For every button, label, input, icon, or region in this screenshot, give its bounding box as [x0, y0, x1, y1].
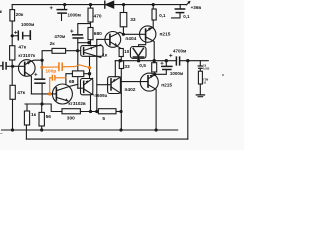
svg-text:кт3102в: кт3102в [68, 101, 85, 106]
wire rail2 [26, 138, 187, 140]
svg-text:4700м: 4700м [173, 49, 187, 54]
capacitor C1 input [0, 62, 13, 69]
wire divider bar [25, 104, 62, 112]
capacitor C7 1000m output [155, 61, 172, 75]
resistor R6 680 [88, 28, 93, 46]
resistor R5 470 [88, 5, 93, 28]
resistor R10 300 [62, 109, 80, 114]
svg-text:0,1: 0,1 [159, 13, 166, 18]
resistor R17 33 lower [119, 61, 123, 69]
ground [196, 95, 204, 97]
wire output to rail2 [187, 61, 189, 139]
wire p404 base down [96, 39, 98, 111]
node dot rail-1000m [63, 3, 66, 6]
resistor R1 20k [10, 10, 15, 21]
svg-text:33: 33 [130, 17, 136, 23]
wire [12, 99, 14, 130]
wire emitter VT1 [32, 59, 42, 62]
node dot box1-bottom [89, 110, 92, 113]
capacitor C5 electrolytic mid [35, 60, 45, 104]
svg-text:кт3107к: кт3107к [18, 53, 35, 58]
wire [11, 21, 13, 46]
resistor R11 5 [98, 109, 116, 114]
wire output line [115, 60, 176, 62]
wire box2 top to output [114, 61, 116, 77]
node dot rail1-56 [40, 128, 43, 131]
capacitor C2 1000m horizontal [12, 31, 30, 40]
svg-text:470: 470 [94, 13, 102, 19]
resistor R9 56 [39, 104, 44, 130]
svg-text:0,5: 0,5 [139, 63, 146, 69]
node dot output-rail2 [186, 59, 189, 62]
scan artifact left edge bottom [0, 133, 3, 135]
svg-text:+36в: +36в [191, 5, 202, 10]
node dot rail-33 [122, 3, 125, 6]
svg-text:10: 10 [203, 81, 206, 84]
svg-text:20к: 20к [16, 12, 24, 18]
svg-text:680: 680 [94, 31, 102, 37]
node dot cap-bar [40, 102, 43, 105]
svg-text:п215: п215 [160, 31, 171, 37]
transistor VT1 kt3107k [13, 60, 35, 94]
svg-text:33: 33 [124, 64, 130, 70]
svg-text:п404: п404 [125, 36, 136, 42]
svg-text:470м: 470м [54, 34, 66, 39]
node dot collector p404 [122, 33, 125, 36]
wire [11, 60, 13, 85]
capacitor 100p orange [59, 63, 62, 71]
svg-text:300: 300 [67, 116, 75, 122]
node dot rail-0,1 [152, 3, 155, 6]
node dot base VT3 [48, 92, 51, 95]
transistor boxU p609a upper [81, 45, 103, 58]
svg-text:68: 68 [69, 79, 75, 85]
svg-text:1000м: 1000м [170, 71, 184, 76]
capacitor C8 4700m [170, 54, 209, 65]
resistor R12 33 [120, 5, 127, 35]
node dot emitter p402 [153, 73, 156, 76]
svg-text:100р: 100р [45, 68, 56, 74]
node dot caps-node [76, 49, 79, 52]
wire base box1 [78, 87, 84, 89]
wire orange B cont [55, 77, 66, 79]
transistor box2 p609a right [108, 77, 122, 94]
resistor R7 68 [72, 71, 83, 77]
resistor R3 47k lower [10, 85, 15, 99]
wire [116, 111, 121, 113]
capacitor C10 0,1 top right [172, 5, 185, 18]
node dot 680-bottom [87, 41, 90, 44]
wire caps to 680 node [78, 42, 91, 44]
wire rail1 [2, 129, 178, 131]
transistor box1 p609a left [81, 78, 94, 95]
capacitor C9 zobel [198, 61, 202, 71]
svg-text:1к: 1к [31, 112, 37, 118]
svg-text:п215: п215 [161, 82, 172, 88]
svg-text:1к: 1к [102, 52, 108, 58]
node dot rail1-left [11, 128, 14, 131]
wire box2 base [97, 84, 111, 86]
node dot upper cap tap [11, 34, 14, 37]
node dot base VT1 [11, 65, 14, 68]
wire 2k to boxU base [66, 50, 85, 52]
svg-text:1000м: 1000м [68, 12, 82, 17]
resistor R8 1k [24, 104, 29, 139]
svg-text:2к: 2к [50, 41, 56, 47]
capacitor orange B [52, 75, 55, 80]
svg-text:47к: 47к [18, 45, 26, 51]
wire to base p215 [123, 33, 145, 35]
node dot 10-output [118, 59, 121, 62]
svg-text:10: 10 [124, 49, 130, 54]
resistor R14 0,1 [152, 5, 156, 28]
resistor R15 0,5 [152, 63, 157, 75]
node dot collector p215 [153, 59, 156, 62]
wire orange B [50, 78, 52, 94]
wire box1 bottom [90, 95, 92, 112]
node dot orange B [48, 92, 51, 95]
resistor R2 47k upper [10, 46, 15, 60]
transistor VT4 p404 [97, 32, 124, 49]
wire [80, 111, 98, 113]
wire orange A [42, 66, 58, 68]
transistor VT6 p402 [121, 73, 158, 130]
capacitor C4 470m vertical [71, 30, 83, 88]
wire 470 elbow to caps column [78, 24, 90, 35]
svg-text:п402: п402 [125, 87, 136, 93]
node dot rail1-box2 [119, 128, 122, 131]
node dot rail1-p402 [155, 128, 158, 131]
node dot diode-output [137, 59, 140, 62]
wire left column [11, 5, 13, 10]
svg-text:1000м: 1000м [21, 22, 35, 27]
diode D1 on top rail [105, 1, 114, 8]
orange highlight wiring [40, 63, 91, 96]
svg-text:5: 5 [102, 116, 105, 122]
node dot 68-junction [88, 72, 91, 75]
node dot orange A [40, 66, 43, 69]
node dot box2-bottom [119, 110, 122, 113]
node dot p404-base-line [95, 110, 98, 113]
scan artifact left edge top [0, 11, 2, 14]
transistor VT3 kt3102 [31, 84, 77, 104]
svg-text:п609а: п609а [94, 93, 107, 98]
svg-text:0,1: 0,1 [183, 14, 190, 19]
wire 33 down through p402 base node to rail [120, 69, 122, 131]
node dot emitter node [41, 59, 44, 62]
node dot rail-470 [89, 3, 92, 6]
wire 68 right lead [84, 73, 90, 75]
svg-text:0,033: 0,033 [203, 68, 210, 71]
svg-text:56: 56 [46, 114, 52, 120]
wire orange A cont [63, 65, 90, 68]
node dot 1000m-output [165, 59, 168, 62]
node dot orange boxU [88, 66, 91, 69]
wire top rail [12, 4, 104, 6]
diode-box VD2 bias [130, 39, 146, 61]
transistor VT5 p215 upper [140, 26, 156, 61]
wire riser to 2k [42, 51, 52, 61]
arrow +36v supply [186, 1, 190, 5]
capacitor C3 1000m vertical top [50, 5, 67, 21]
wire boxU emitter down [89, 56, 91, 78]
wire 68 left lead corner [66, 74, 73, 85]
svg-text:47к: 47к [17, 90, 25, 96]
label 100p orange [45, 68, 56, 74]
resistor R13 10 [119, 49, 123, 61]
scan speck right [222, 74, 224, 76]
resistor R4 2k [52, 48, 66, 53]
resistor R16 zobel [198, 71, 202, 95]
